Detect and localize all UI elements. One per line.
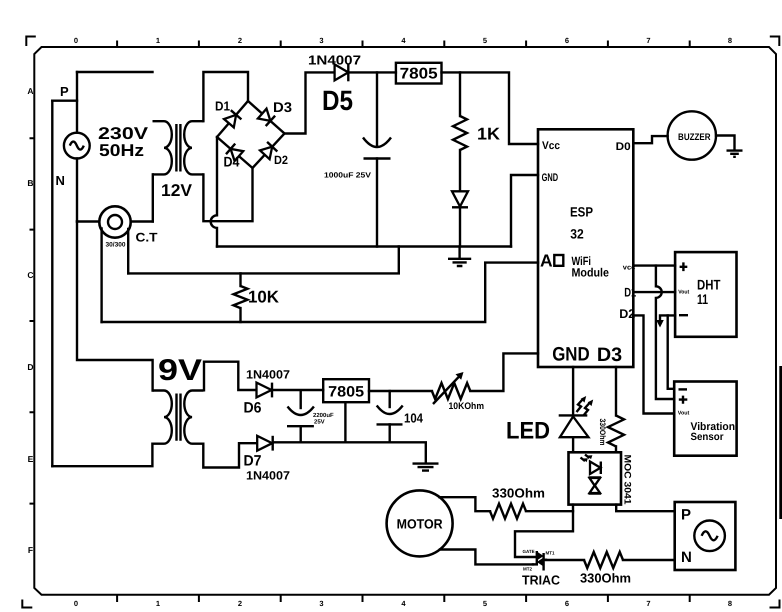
wire bridge minus with hop over [211,137,217,247]
svg-text:2200uF: 2200uF [313,412,334,419]
svg-text:Module: Module [572,265,610,279]
wire A0 rail [102,263,538,322]
optocoupler U6 MOC3041 box [569,452,622,504]
wire D5 to regulator [348,71,396,73]
svg-text:30/300: 30/300 [106,242,126,249]
node P stub wire [52,99,77,101]
capacitor C1 1000uF 25V [363,72,391,246]
diode D5 1N4007 [335,64,349,81]
wire motor resistor to MOC junction [526,510,573,512]
svg-text:GND: GND [552,344,590,366]
svg-text:B: B [27,178,33,188]
svg-text:N: N [681,549,692,566]
wire DHT minus with ground arrow [656,315,675,327]
current transformer C.T [99,206,130,237]
buzzer BZ1 [668,111,716,159]
svg-text:330Ohm: 330Ohm [580,571,631,586]
wire neutral vertical to 9V primary [77,222,153,391]
resistor R2 10K [234,273,248,322]
svg-text:50Hz: 50Hz [99,141,144,160]
svg-text:10KOhm: 10KOhm [449,401,485,412]
potentiometer R3 10KOhm [432,372,470,404]
wire ESP D1 to DHT Vout [633,291,675,293]
svg-text:7805: 7805 [328,384,364,401]
transformer T1 12V primary coil [153,121,172,174]
wire 7805 gnd pin [344,402,346,442]
svg-text:BUZZER: BUZZER [678,132,711,143]
wire ESP GND to ground rail [511,175,538,247]
capacitor C2 2200uF [287,391,314,442]
wire ESP D3 down to resistor [615,367,617,416]
svg-text:330Ohm: 330Ohm [598,419,607,446]
svg-text:11: 11 [697,291,708,307]
pin label vib plus [679,396,688,404]
wire motor top to resistor [440,497,491,511]
svg-text:3: 3 [319,599,323,608]
svg-text:P: P [681,507,691,524]
regulator U1 7805 [396,63,442,84]
pin label DHT plus [680,262,688,271]
svg-text:MOC 3041: MOC 3041 [622,455,633,506]
regulator U5 7805 [323,379,369,402]
svg-text:MT1: MT1 [546,551,555,556]
ruler ticks left [30,138,35,503]
svg-text:D: D [27,362,33,372]
svg-text:P: P [60,84,69,99]
wire ESP GND down to LED [572,367,574,415]
frame corner mark bottom-left [22,600,33,609]
svg-text:1N4007: 1N4007 [246,368,290,382]
op module U4 vibration sensor box [674,382,736,456]
ground symbol top supply [448,247,471,267]
svg-text:D3: D3 [273,99,292,115]
frame corner mark top-left [25,36,36,47]
svg-text:D7: D7 [244,453,262,470]
svg-text:25V: 25V [314,419,325,426]
ruler letters left [27,86,33,555]
wire C.T secondary leads [102,229,129,323]
svg-text:1000uF 25V: 1000uF 25V [324,171,371,180]
AC source V1 230V 50Hz [64,133,90,159]
wire pot to ESP pin [470,353,538,391]
svg-text:C: C [27,270,33,280]
svg-text:6: 6 [565,36,569,45]
ground symbol bottom supply [413,464,439,471]
pin label vib minus [679,388,688,390]
svg-text:5: 5 [483,36,487,45]
svg-text:10K: 10K [248,288,280,307]
ruler numbers top [74,36,732,45]
svg-text:0: 0 [74,36,78,45]
svg-text:12V: 12V [161,181,193,200]
ruler numbers bottom [74,599,732,608]
svg-text:E: E [28,454,34,464]
wire AC source bottom lead [76,159,78,222]
wire C.T ground rail [128,247,399,274]
wire mains top (AC source to transformer primary) [77,71,153,73]
svg-text:D3: D3 [597,344,622,366]
svg-text:MT2: MT2 [523,567,532,572]
svg-text:330Ohm: 330Ohm [492,486,545,501]
wire buzzer to ground [716,136,735,150]
wire secondary top to bridge AC node [203,72,248,121]
wire vcc branch to vibration plus with hop [656,266,674,399]
triac Q1 [533,551,546,571]
diode D2 [260,142,277,159]
svg-text:TRIAC: TRIAC [522,573,561,588]
wire D0 to buzzer [633,136,667,143]
svg-text:2: 2 [238,599,242,608]
svg-text:3: 3 [319,36,323,45]
transformer T2 core [177,394,181,441]
svg-text:2: 2 [238,36,242,45]
resistor R4 330Ohm vertical [608,416,624,453]
wire C.T horizontal [77,220,153,222]
svg-text:A: A [27,86,33,96]
svg-text:1: 1 [156,599,160,608]
wire MOC left pin to triac gate [515,505,573,557]
wire bottom ground rail [273,442,426,462]
wire resistor to N pin [623,559,675,561]
wire transformer T1 primary bottom lead [152,174,154,221]
svg-text:D1: D1 [215,99,230,114]
LED D9 [559,415,589,452]
wire triac to resistor [546,559,584,561]
svg-text:LED: LED [506,418,550,445]
wire bridge plus output up [285,72,335,133]
svg-text:D5: D5 [322,85,353,116]
wire 7805 output rail [369,390,432,392]
svg-text:GND: GND [542,172,559,184]
diode D7 1N4007 [257,436,273,451]
ruler ticks top [117,41,690,48]
svg-text:ESP: ESP [570,205,593,220]
ground symbol buzzer [727,151,743,157]
wire ESP vcc to DHT plus [633,264,675,266]
wire ground rail top supply [217,245,511,247]
diode D4 [226,144,243,161]
pin label A0 [540,250,563,270]
svg-text:1N4007: 1N4007 [246,469,290,483]
MOC internal phototriac [589,478,602,494]
svg-text:MOTOR: MOTOR [397,517,443,532]
op module U2 ESP32 WiFi Module box [538,129,633,367]
wire MOC right pin to P [616,505,675,512]
svg-text:Sensor: Sensor [691,431,724,443]
diode D3 [258,109,275,126]
wire P to 9V primary bottom [52,444,152,467]
svg-text:D4: D4 [224,154,240,170]
svg-text:5: 5 [483,599,487,608]
pin label DHT minus [679,314,688,316]
MOC internal LED [581,455,601,475]
svg-text:GATE: GATE [523,549,535,554]
wire P long vertical [51,101,53,467]
svg-text:7805: 7805 [400,66,438,83]
resistor R6 330Ohm [584,552,623,568]
svg-text:0: 0 [74,599,78,608]
LED light arrows [577,396,594,416]
frame corner mark bottom-right [770,600,781,609]
AC source V2 box P N [675,502,736,570]
capacitor C3 104 [377,391,403,442]
svg-text:8: 8 [728,36,732,45]
svg-text:8: 8 [728,599,732,608]
wire motor bottom to triac [440,550,533,565]
svg-text:1K: 1K [477,125,501,144]
wire T2 secondary top to D6 [204,362,257,391]
frame corner mark top-right [770,36,781,47]
svg-text:Vout: Vout [678,290,689,296]
svg-text:1: 1 [156,36,160,45]
svg-text:Vcc: Vcc [542,140,560,152]
svg-text:F: F [28,545,33,555]
svg-text:Vout: Vout [678,410,690,416]
svg-text:7: 7 [646,36,650,45]
wire T2 secondary bottom to D7 [203,443,257,467]
svg-text:32: 32 [570,227,584,242]
svg-text:D0: D0 [616,141,631,153]
wire 7805 output to ESP Vcc [442,72,539,144]
wire secondary bottom to bridge AC node [203,168,252,221]
resistor R1 1K [453,72,467,191]
svg-text:7: 7 [646,599,650,608]
right edge cropped mark [779,366,782,519]
diode D6 1N4007 [257,383,324,398]
bridge rectifier diamond wires [217,101,285,168]
diode D1 [224,110,241,127]
svg-text:D2: D2 [274,153,288,167]
transformer T1 core [176,124,180,172]
svg-text:6: 6 [565,599,569,608]
wire AC source top lead [76,72,78,133]
svg-text:D2: D2 [619,307,635,321]
op module U3 DHT11 box [675,252,736,337]
diode D8 indicator [452,191,468,246]
svg-text:1N4007: 1N4007 [308,53,361,68]
transformer T1 secondary coil [184,121,203,174]
resistor R5 330Ohm [490,504,526,519]
motor M1 [387,490,453,556]
transformer T2 secondary coil [184,391,203,444]
ruler ticks bottom [117,595,690,602]
svg-text:9V: 9V [158,354,202,387]
svg-text:D6: D6 [244,400,262,417]
svg-text:A: A [540,250,553,270]
wire minus branch to vibration minus [668,315,675,388]
svg-text:104: 104 [404,411,424,426]
wire ESP D2 to vibration Vout [633,315,674,413]
svg-text:C.T: C.T [136,231,158,245]
transformer T2 9V primary coil [152,391,171,444]
svg-text:N: N [56,173,65,188]
